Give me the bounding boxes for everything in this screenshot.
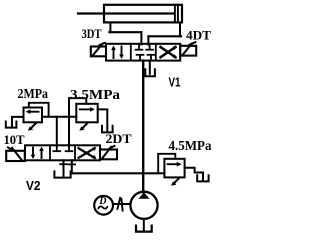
V2 left box up arrow bbox=[41, 149, 43, 158]
V1 right box crossed arrows bbox=[161, 47, 176, 57]
V2 center box blocked ports bbox=[53, 146, 72, 151]
V2 bottom port P stub and bar bbox=[71, 160, 73, 164]
svg-text:D: D bbox=[98, 196, 106, 207]
coupling tick 2 bbox=[121, 199, 122, 211]
cylinder rod bbox=[78, 12, 174, 14]
tank under pump bbox=[136, 226, 152, 232]
V1 center box blocked ports bbox=[136, 45, 155, 61]
V1 left box up arrow bbox=[113, 48, 115, 58]
V1 left box down arrow bbox=[121, 47, 123, 57]
2MPa arrow bbox=[29, 111, 39, 113]
valve V1 body bbox=[106, 44, 180, 61]
wire cylinder right port bbox=[179, 23, 181, 37]
tank at 4.5MPa outlet bbox=[197, 175, 208, 181]
coupling tick 1 bbox=[117, 198, 120, 209]
V2 bottom port A stub and bar bbox=[63, 160, 65, 164]
svg-text:V1: V1 bbox=[169, 75, 181, 89]
4.5MPa outlet wire bbox=[185, 168, 203, 180]
svg-text:10T: 10T bbox=[4, 132, 25, 147]
V2 left box down arrow bbox=[32, 148, 34, 157]
wire riser V2 port A bbox=[56, 117, 58, 146]
wire riser V2 port B / 3.5MPa pilot bbox=[68, 98, 70, 146]
wire A vertical to V1 bbox=[140, 32, 142, 44]
3.5MPa spring bbox=[82, 123, 88, 129]
node line to relief valves bbox=[42, 116, 76, 118]
motor shaft bbox=[113, 203, 130, 205]
tank at 2MPa outlet bbox=[6, 122, 17, 128]
svg-text:4.5MPa: 4.5MPa bbox=[169, 139, 212, 154]
3.5MPa pilot line over top bbox=[69, 98, 86, 104]
tank under V1 T port bbox=[149, 61, 151, 74]
wire A horizontal bbox=[109, 31, 141, 33]
pump outlet triangle bbox=[139, 192, 150, 198]
solenoid 4DT (V1 right) bbox=[180, 46, 196, 56]
relief valve 3.5MPa box bbox=[76, 104, 97, 123]
svg-text:3DT: 3DT bbox=[82, 26, 102, 41]
pump circle bbox=[130, 192, 157, 219]
label ~ in motor bbox=[98, 206, 107, 208]
svg-text:4DT: 4DT bbox=[186, 27, 211, 42]
wire B vertical to V1 bbox=[147, 36, 149, 44]
solenoid 2DT (V2 right) bbox=[100, 150, 117, 160]
3.5MPa outlet wire bbox=[98, 109, 108, 130]
4.5MPa arrow bbox=[168, 163, 179, 165]
valve V2 body bbox=[25, 145, 100, 160]
relief valve 2MPa box bbox=[24, 108, 43, 123]
motor circle bbox=[94, 196, 113, 215]
solenoid 10T (V2 left) bbox=[6, 151, 25, 161]
4.5MPa spring bbox=[174, 178, 180, 184]
4.5MPa pilot line over top bbox=[158, 154, 175, 173]
pump suction stub bbox=[143, 219, 145, 230]
V2 right box crossed arrows bbox=[79, 148, 95, 158]
2MPa spring bbox=[31, 123, 37, 129]
tank under V2 bbox=[63, 164, 65, 176]
cylinder body bbox=[104, 5, 182, 23]
cylinder piston bbox=[175, 6, 178, 22]
3.5MPa arrow bbox=[80, 108, 92, 110]
wire V2 P drop bbox=[71, 164, 73, 173]
wire cylinder left port bbox=[109, 23, 111, 33]
svg-text:2DT: 2DT bbox=[106, 131, 132, 146]
relief valve 4.5MPa box bbox=[164, 159, 184, 178]
svg-text:3.5MPa: 3.5MPa bbox=[70, 88, 120, 103]
svg-text:V2: V2 bbox=[26, 179, 41, 193]
wire main bottom line bbox=[72, 172, 165, 174]
2MPa outlet wire bbox=[12, 117, 24, 126]
solenoid 3DT (V1 left) bbox=[91, 47, 106, 57]
wire P line (pump to V1) bbox=[142, 61, 144, 192]
2MPa pilot line over top bbox=[29, 103, 49, 117]
tank at 3.5MPa outlet bbox=[102, 126, 113, 133]
wire B horizontal bbox=[148, 35, 181, 37]
svg-text:2MPa: 2MPa bbox=[18, 87, 49, 102]
